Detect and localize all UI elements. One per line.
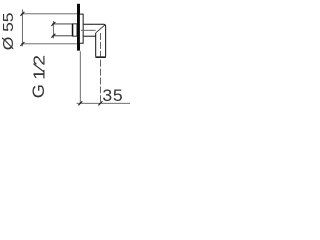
svg-text:1⁄2: 1⁄2 (30, 55, 48, 80)
miter edge diagonal (96, 25, 105, 33)
svg-text:G: G (29, 84, 48, 98)
tick T1 (20, 12, 24, 16)
svg-text:35: 35 (102, 85, 123, 105)
tick T4 (51, 34, 55, 38)
extension line A (flange top, y=13.8) (21, 13, 77, 15)
svg-text:Ø 55: Ø 55 (1, 12, 16, 50)
supply pipe top line (52, 23, 72, 25)
elbow lower edge (horizontal pipe bottom) (84, 35, 96, 37)
dimension line D1 (ø55 vertical) (21, 10, 23, 47)
supply pipe bottom line (52, 35, 72, 37)
tick T2 (20, 42, 24, 46)
dimension line D3 (35 horizontal) (77, 102, 130, 104)
tick T6 (98, 101, 102, 105)
elbow body outline (84, 24, 106, 56)
left extension line (wall face) (79, 51, 81, 104)
tick T5 (78, 101, 82, 105)
pipe outlet bottom cap (95, 56, 106, 58)
nut thick left edge (72, 24, 74, 36)
horizontal centerline (81, 29, 96, 31)
flange (escutcheon side view) (80, 14, 83, 43)
vertical centerline / right extension (99, 33, 101, 104)
dimension line D2 (pipe dia vertical) (52, 21, 54, 39)
union nut (72, 24, 77, 36)
wall plate (black bar) (77, 4, 80, 51)
vertical pipe left edge (95, 33, 97, 57)
extension line B (flange bottom, y=44) (21, 43, 77, 45)
tick T3 (51, 22, 55, 26)
